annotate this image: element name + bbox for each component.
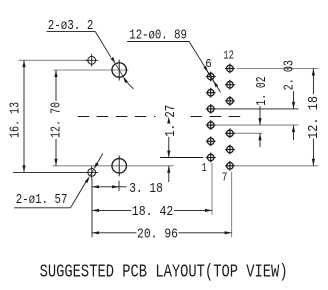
svg-text:12. 18: 12. 18 [306,96,322,139]
svg-text:12-ø0. 89: 12-ø0. 89 [129,27,187,43]
svg-text:12: 12 [223,48,234,62]
svg-text:20. 96: 20. 96 [137,227,178,243]
svg-text:6: 6 [205,57,212,71]
svg-text:12. 70: 12. 70 [48,102,64,138]
svg-text:7: 7 [222,170,228,184]
svg-text:1. 02: 1. 02 [254,76,270,105]
svg-text:16. 13: 16. 13 [8,102,24,138]
svg-text:SUGGESTED PCB LAYOUT(TOP VIEW): SUGGESTED PCB LAYOUT(TOP VIEW) [40,263,288,283]
svg-text:2-ø1. 57: 2-ø1. 57 [16,192,68,208]
svg-text:18. 42: 18. 42 [132,204,174,220]
svg-text:1. 27: 1. 27 [163,105,179,137]
svg-text:1: 1 [202,161,207,175]
svg-text:2. 03: 2. 03 [281,60,297,90]
svg-text:3. 18: 3. 18 [129,181,163,197]
